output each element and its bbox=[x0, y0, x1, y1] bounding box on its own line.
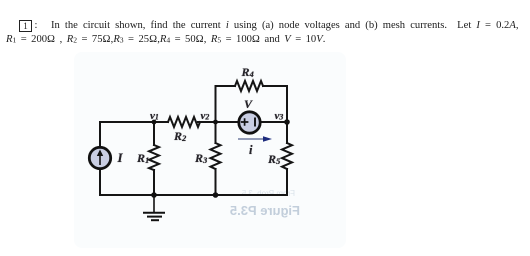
wire: R4 to top-right corner bbox=[263, 85, 287, 87]
node: bottom junction under R1 bbox=[151, 192, 157, 198]
wire: bottom horizontal bbox=[100, 194, 287, 196]
faint bleed-through watermark "Figure P3.5" mirrored bbox=[196, 203, 300, 218]
current arrow i bbox=[238, 136, 272, 142]
label v1 bbox=[150, 110, 159, 122]
node: bottom junction under R3 bbox=[213, 192, 219, 198]
wire: V source to v3 bbox=[261, 121, 287, 123]
problem number box bbox=[19, 20, 32, 32]
faint bleed-through small line bbox=[205, 189, 295, 198]
node v3 bbox=[284, 119, 290, 125]
voltage source V bbox=[239, 112, 260, 133]
wire: R3 leads bbox=[215, 122, 217, 195]
label R3 bbox=[195, 151, 207, 166]
resistor R2 bbox=[168, 117, 200, 127]
resistor R1 bbox=[149, 145, 159, 170]
faint scan tint over circuit area bbox=[74, 52, 346, 248]
resistor R5 bbox=[282, 143, 292, 169]
current source I bbox=[89, 147, 110, 168]
problem text line 1 bbox=[51, 20, 518, 31]
label R1 bbox=[137, 151, 149, 166]
wire: v2 to top loop bbox=[216, 86, 236, 122]
label R4 bbox=[242, 65, 254, 80]
node v2 bbox=[213, 120, 218, 125]
label v3 bbox=[275, 110, 284, 122]
resistor R4 bbox=[235, 81, 263, 91]
wire: R1 leads bbox=[153, 122, 155, 195]
label i bbox=[249, 143, 252, 158]
node v1 bbox=[152, 120, 157, 125]
label R5 bbox=[268, 152, 280, 167]
label R2 bbox=[174, 129, 186, 144]
label v2 bbox=[201, 110, 210, 122]
problem text line 2 bbox=[6, 34, 325, 45]
wire: middle from R2 right to V source bbox=[198, 121, 238, 123]
label I bbox=[118, 150, 123, 166]
wire: left branch vertical bbox=[99, 122, 101, 195]
wire: right branch vertical bbox=[286, 86, 288, 195]
ground bbox=[143, 195, 165, 220]
wire: top-left horizontal (left corner to v1 to R2) bbox=[100, 121, 168, 123]
resistor R3 bbox=[211, 143, 221, 169]
label V bbox=[244, 97, 252, 112]
